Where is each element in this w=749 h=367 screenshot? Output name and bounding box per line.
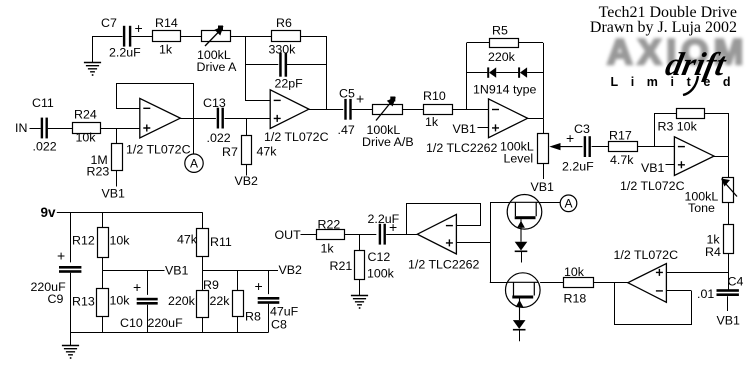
wire U5 feedback loop: [615, 283, 692, 325]
wire U6 feedback loop: [407, 204, 481, 235]
diode below Q1: [515, 242, 528, 251]
wire R8 to bottom rail: [237, 317, 239, 333]
wire down to R9: [202, 270, 204, 290]
resistor R18 10k: [564, 278, 594, 288]
wire to R3: [654, 113, 676, 115]
wire C8 to bottom rail: [268, 304, 270, 333]
wire R4 down to C4 and U5 plus input: [728, 254, 730, 290]
wire R17 to op-amp U4 inverting input: [638, 146, 675, 148]
wire junction up to R3: [654, 113, 656, 147]
op-amp U3 1/2 TLC2262: [489, 99, 528, 138]
potentiometer 100kL Drive A/B: [373, 105, 403, 115]
wire Tone pot to R4: [728, 202, 730, 225]
wire U5 output to R18: [594, 282, 628, 284]
capacitor C11 .022: [41, 118, 43, 139]
resistor R8 22k: [233, 291, 244, 317]
VB1 rail wire: [103, 270, 165, 272]
capacitor C5 .47: [344, 99, 346, 120]
wire R14 to pot Drive A: [180, 36, 201, 38]
wire R6 to right feedback rail: [300, 36, 327, 38]
capacitor C8 47uF: [258, 297, 280, 300]
resistor R6 330k: [272, 31, 301, 42]
resistor R23 1M: [112, 144, 123, 171]
wire junction down to R7: [246, 118, 248, 135]
wire down to R13: [102, 270, 104, 288]
VB2 rail wire: [203, 270, 279, 272]
wire stub below Q1 diode: [521, 251, 523, 262]
JFET Q1 (upper): [507, 195, 542, 230]
wire U3 output to Level pot: [528, 118, 543, 120]
wire R11 to VB2 rail: [202, 257, 204, 271]
wire C7 to R14: [131, 36, 152, 38]
op-amp U2 1/2 TL072C: [270, 90, 309, 129]
wire C4 to VB1: [727, 296, 729, 311]
wire C3 to R17: [592, 146, 609, 148]
resistor R7 47k: [242, 136, 252, 165]
Level pot wiper arrow from C3: [560, 146, 583, 148]
wire R18 to JFET Q2 drain: [540, 282, 564, 284]
wire 22pF right segment: [287, 64, 327, 66]
resistor R14 1k: [153, 31, 181, 42]
wire right feedback rail down to U2 output: [326, 36, 328, 109]
wire R13 to bottom rail: [102, 316, 104, 332]
drift f descender tail: [683, 76, 698, 95]
wire junction down to R23: [116, 128, 118, 144]
capacitor C13 .022: [217, 108, 219, 129]
diode D2 1N914: [518, 67, 520, 77]
wire R5 to right side of loop: [519, 42, 543, 44]
ground below R21: [351, 296, 368, 305]
resistor R9 220k: [197, 291, 209, 318]
wire pot to R10: [402, 109, 424, 111]
resistor R24 10k: [73, 123, 101, 134]
potentiometer 100kL Tone: [723, 178, 734, 203]
ground below C7 left end: [92, 36, 94, 62]
diode below Q2: [513, 320, 526, 329]
wire VB1 rail down to C10: [147, 270, 149, 295]
wire node A drop from U1 output: [193, 118, 195, 154]
wire C13 to U2 non-inverting input: [225, 118, 271, 120]
wire VB1 to U4 plus input: [666, 164, 675, 166]
wire Q1 drain to node A: [539, 202, 560, 204]
wire down to Level pot top: [543, 118, 545, 134]
wire D2 to loop right rail: [527, 72, 543, 74]
wire junction up to diode/R5 feedback: [466, 43, 468, 109]
op-amp U4 1/2 TL072C: [674, 137, 714, 176]
wire U6 non-inverting input to JFET rail: [456, 242, 490, 244]
op-amp U1 1/2 TL072C: [140, 98, 181, 137]
wire stub below Q2 diode: [519, 330, 521, 342]
resistor R5 220k: [490, 39, 519, 48]
wire Q2 source to common rail: [490, 282, 508, 284]
wire feedback top left to R5: [467, 42, 490, 44]
bottom ground rail: [70, 332, 268, 334]
capacitor C12 2.2uF: [379, 224, 381, 245]
title block: [590, 5, 737, 35]
logo AXIOM: [607, 32, 748, 73]
potentiometer 100kL Drive A: [202, 31, 231, 42]
wire 9v rail corner down to R11: [202, 212, 204, 228]
wire pot to node (junction to R6 and op-amp U2 inverting input): [230, 36, 245, 38]
wire R22 to C12 node: [344, 234, 376, 236]
wire junction down to U2 minus input: [246, 37, 271, 101]
wire R23 to VB1: [116, 171, 118, 187]
resistor R17 4.7k: [609, 142, 638, 152]
wire 22pF left segment: [246, 64, 279, 66]
wire R10 to op-amp U3 inverting input: [452, 109, 488, 111]
wire junction to R6: [246, 36, 272, 38]
wire diode row left segment: [467, 72, 488, 74]
wire: top chain from ground to C7: [93, 37, 123, 63]
op-amp U5 1/2 TL072C (points left): [628, 264, 667, 303]
resistor R22 1k: [317, 230, 345, 240]
resistor R4 1k: [724, 225, 734, 254]
wire Level pot bottom to VB1: [543, 164, 545, 179]
logo Limited: [611, 75, 744, 89]
wire OUT to R22: [301, 234, 317, 236]
wire common vertical rail joining Q1/Q2 and U6 plus input: [490, 203, 492, 282]
node A circle (left): [185, 154, 203, 172]
wire R3 to output rail: [705, 113, 728, 115]
wire U5 inverting input to feedback: [666, 290, 691, 292]
wire C5 to pot Drive A/B: [352, 109, 373, 111]
wire VB2 rail down to R8: [237, 270, 239, 291]
diode D1 1N914: [487, 67, 489, 77]
wire U1 feedback loop output to inverting input: [117, 84, 194, 119]
wire rail down to R12: [102, 212, 104, 228]
wire loop right rail down to U3 output: [543, 43, 545, 118]
wire U5 non-inverting input to R4/C4 node: [666, 272, 728, 274]
wire U2 output to C5: [309, 109, 343, 111]
wire R24 to op-amp U1 non-inverting input: [101, 128, 140, 130]
op-amp U6 1/2 TLC2262 (points left): [417, 214, 456, 254]
wire R7 to VB2: [246, 164, 248, 176]
wire between diodes: [496, 72, 518, 74]
wire junction down to R21: [359, 234, 361, 251]
wire rail down to C9: [70, 212, 72, 262]
resistor R11 47k: [197, 229, 209, 257]
wire VB2 rail down to C8: [268, 270, 270, 294]
wire 9v rail: [57, 212, 203, 214]
wire down to U4 output: [728, 113, 730, 156]
resistor R3 10k: [677, 109, 705, 119]
wire C11 to R24: [48, 128, 72, 130]
wire C10 to bottom rail: [147, 305, 149, 333]
wire C12 to op-amp U6 output: [386, 234, 417, 236]
ground below bottom rail: [70, 332, 72, 345]
capacitor C10 220uF: [137, 298, 158, 301]
wire rail top to JFET Q1: [490, 202, 510, 204]
JFET Q2 (lower): [506, 273, 541, 308]
wire U1 output to C13: [180, 118, 216, 120]
resistor R21 100k: [355, 251, 365, 280]
wire C9 to bottom rail: [70, 273, 72, 333]
capacitor C4 .01: [717, 289, 739, 292]
resistor R13 10k: [97, 289, 109, 317]
logo drift: [662, 47, 729, 84]
wire IN to C11: [30, 128, 41, 130]
wire U4 output to Tone pot: [714, 156, 728, 158]
wire R21 to ground: [359, 279, 361, 296]
resistor R10 1k: [424, 105, 453, 115]
wire VB1 to U3 plus input: [478, 127, 489, 129]
capacitor 22pF: [279, 53, 282, 77]
wire R12 to VB1 rail: [102, 257, 104, 270]
resistor R12 10k: [98, 228, 109, 258]
node A circle (right): [560, 195, 577, 212]
capacitor C7: [123, 26, 125, 47]
potentiometer 100kL Level: [538, 134, 549, 164]
wire R9 to bottom rail: [202, 318, 204, 333]
capacitor C3 2.2uF: [584, 136, 586, 157]
capacitor C9 220uF: [59, 266, 81, 269]
